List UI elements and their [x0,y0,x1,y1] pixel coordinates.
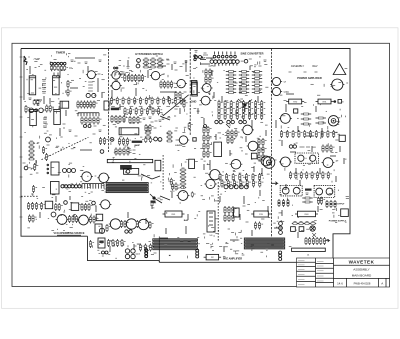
wire [57,73,59,77]
capacitor C8 [95,224,102,233]
resistor R64 [167,81,172,89]
resistor R77 [174,97,179,105]
resistor R244 [326,200,328,208]
connector J7 [292,248,326,251]
resistor R86 [183,100,188,108]
capacitor C15 [191,192,195,198]
transistor Q109 [100,150,104,154]
transistor Q44 [110,81,121,89]
resistor R227 [326,145,331,153]
resistor R18 [32,185,37,193]
resistor R174 [227,136,232,144]
resistor R180 [258,154,263,162]
transistor Q42 [136,64,140,68]
resistor R146 [261,100,266,108]
relay K2 [124,169,139,175]
resistor R14 [28,149,34,152]
resistor R103 [115,148,120,156]
transistor Q82 [145,252,148,255]
resistor R222 [315,130,320,138]
resistor R210 [316,99,334,104]
resistor R230 [295,171,300,179]
resistor R191 [234,180,239,188]
transistor Q13 [97,173,110,183]
resistor R247 [295,211,318,217]
wire [158,237,160,263]
transistor Q5 [35,109,38,112]
resistor R214 [316,117,326,119]
resistor R102 [166,139,172,142]
connector J1 [78,113,99,116]
transistor Q12 [80,172,93,182]
resistor R49 [150,58,156,61]
resistor R98 [145,131,151,134]
resistor R42 [112,239,117,247]
resistor R81 [135,107,140,115]
resistor R173 [235,130,240,138]
resistor R139 [218,100,223,108]
capacitor C1 [50,65,54,71]
transistor Q1 [86,71,97,79]
transistor Q87 [279,251,282,254]
svg-text:ASSEMBLY: ASSEMBLY [291,65,305,68]
resistor R91 [129,116,134,124]
resistor R26 [84,203,89,211]
resistor R153 [255,106,260,114]
resistor R201 [232,206,237,214]
resistor R187 [252,173,257,181]
resistor R89 [119,115,124,123]
svg-text:A: A [381,281,383,285]
resistor R269 [45,153,50,161]
transistor Q105 [194,55,196,57]
resistor R206 [254,222,259,230]
svg-text:LEVEL: LEVEL [175,145,183,147]
resistor R208 [204,254,222,260]
transistor Q69 [241,125,254,135]
resistor R124 [226,78,236,80]
arrow mark [271,182,277,185]
resistor R24 [58,203,63,211]
resistor R246 [334,200,336,208]
op-amp U12 [207,211,215,232]
transistor Q79 [177,191,190,201]
op-amp U1 [29,76,36,95]
resistor R82 [141,107,146,115]
resistor R67 [116,97,121,105]
resistor R109 [180,172,186,175]
transistor Q26 [99,228,104,233]
transistor Q35 [131,249,135,253]
resistor R169 [203,150,208,158]
resistor R7 [80,101,85,109]
resistor R199 [224,206,229,214]
resistor R28 [68,215,73,223]
resistor R157 [230,112,235,120]
transistor Q47 [154,137,158,141]
resistor R151 [242,106,247,114]
resistor R164 [207,126,212,134]
resistor R10 [90,101,95,109]
resistor R104 [119,148,124,156]
op-amp U3 [60,101,69,108]
transistor Q19 [78,185,81,188]
resistor R270 [99,137,104,145]
trimmer RT9 [291,227,296,232]
stray label specks [24,53,349,258]
transistor Q63 [228,60,232,64]
capacitor C3 [57,65,61,71]
resistor R268 [42,146,47,154]
resistor R242 [317,197,322,205]
transistor Q43 [110,71,121,79]
transistor Q57 [234,55,237,58]
resistor R111 [180,179,186,182]
resistor R21 [35,202,40,210]
connector J3 [107,159,152,162]
sheet border frame [12,43,390,286]
transistor Q40 [145,255,148,258]
transistor Q66 [244,59,248,63]
svg-text:REV: REV [312,65,317,68]
resistor R144 [248,100,253,108]
transistor Q91 [271,77,282,85]
resistor R177 [262,138,267,146]
resistor R142 [236,100,241,108]
capacitor C2 [54,65,58,71]
transistor Q50 [195,56,198,59]
resistor R178 [258,146,263,154]
resistor R44 [121,239,126,247]
resistor R257 [323,237,328,245]
resistor R179 [262,146,267,154]
trimmer RT4 [193,138,196,141]
resistor R209 [286,99,304,104]
resistor R2 [67,89,72,97]
transistor Q46 [176,79,187,87]
connector J5 [153,239,198,250]
resistor R125 [239,78,249,80]
resistor R114 [205,69,210,77]
resistor R148 [224,106,229,114]
wire [108,49,110,153]
capacitor C11 [149,137,153,143]
resistor R31 [89,216,94,224]
transistor Q27 [109,219,122,229]
wire [21,195,39,197]
transistor Q34 [125,249,129,253]
resistor R192 [240,180,245,188]
resistor R141 [230,100,235,108]
resistor R140 [224,100,229,108]
transistor Q8 [24,166,28,170]
resistor R168 [207,142,212,150]
svg-text:OUTPUT: OUTPUT [336,204,346,206]
resistor R40 [89,240,94,248]
resistor R228 [330,145,335,153]
resistor R207 [258,222,263,230]
resistor R250 [304,222,310,225]
wire [162,155,164,190]
resistor R233 [311,171,316,179]
resistor R154 [261,106,266,114]
resistor R193 [246,180,251,188]
resistor R92 [133,116,138,124]
transistor Q53 [217,55,220,58]
transistor Q41 [137,59,141,63]
transistor Q90 [330,79,344,90]
transistor Q88 [279,254,282,257]
resistor R241 [302,201,312,203]
node B [150,194,162,209]
resistor R53 [157,62,163,65]
op-amp U2 [53,76,60,95]
transistor Q97 [279,157,292,167]
resistor R126 [252,78,262,80]
transistor Q21 [92,201,96,205]
capacitor C4 [60,65,64,71]
diode CR3 [239,120,247,123]
transistor Q94 [328,116,338,126]
diode CR1 [215,120,223,123]
transistor Q96 [293,145,296,148]
transistor Q36 [125,254,129,258]
resistor R243 [320,197,325,205]
transistor Q55 [226,55,229,58]
relay K1 [120,165,132,170]
transistor Q38 [145,249,148,252]
resistor R97 [145,127,151,130]
resistor R66 [110,97,115,105]
resistor R203 [228,214,233,222]
resistor R95 [122,138,127,146]
transistor Q86 [196,255,199,258]
resistor R35 [120,220,125,228]
capacitor C17 [310,226,315,231]
resistor R17 [34,163,39,171]
resistor R65 [170,81,175,89]
resistor R226 [322,145,327,153]
resistor R112 [180,182,186,185]
ground [111,108,119,111]
transistor Q100 [279,222,283,226]
resistor R3 [25,105,30,113]
resistor R143 [242,100,247,108]
resistor R29 [72,215,77,223]
transistor Q4 [29,108,34,113]
resistor R58 [131,74,136,82]
trimmer RT2 [71,203,79,211]
wire [163,95,189,116]
transistor Q64 [232,60,236,64]
resistor R234 [316,171,321,179]
resistor R170 [207,150,212,158]
transistor Q18 [75,185,78,188]
resistor R46 [144,244,149,252]
svg-text:MAIN BOARD: MAIN BOARD [352,273,372,277]
resistor R232 [306,171,311,179]
resistor R19 [27,202,32,210]
resistor R56 [157,65,163,68]
resistor R197 [175,183,180,191]
resistor R117 [209,76,214,84]
resistor R147 [218,106,223,114]
capacitor C7 [37,99,41,105]
transistor Q49 [178,136,189,144]
resistor R96 [126,138,131,146]
resistor R105 [123,148,128,156]
resistor R245 [330,200,332,208]
transistor Q32 [102,251,105,254]
resistor R272 [188,122,193,130]
ground [305,189,312,191]
connector J2 [82,184,104,189]
resistor R264 [89,117,94,125]
transistor Q7 [46,137,51,142]
resistor R9 [87,101,92,109]
resistor R115 [209,69,214,77]
connector J6 [244,238,284,249]
resistor R78 [180,97,185,105]
capacitor C10 [145,137,149,143]
resistor R258 [175,91,180,99]
resistor R238 [282,199,284,207]
test point TP1 [110,138,114,142]
transistor Q83 [145,255,148,258]
resistor R110 [180,175,186,178]
transistor Q58 [210,60,214,64]
op-amp U5 [54,110,61,125]
resistor R145 [255,100,260,108]
resistor R134 [239,88,249,90]
wire [42,137,89,159]
resistor R70 [134,97,139,105]
transistor Q15 [64,185,67,188]
resistor R68 [122,97,127,105]
resistor R263 [85,117,90,125]
resistor R13 [28,145,34,148]
resistor R6 [77,101,82,109]
resistor R163 [203,126,208,134]
resistor R57 [127,74,132,82]
resistor R135 [252,88,262,90]
capacitor C16 [234,208,240,217]
resistor R223 [321,130,326,138]
resistor R118 [226,71,236,73]
resistor R186 [245,173,250,181]
op-amp U8 [191,81,197,95]
jumper block E2 [280,186,302,196]
resistor R181 [262,154,267,162]
transistor Q14 [61,185,64,188]
resistor R74 [157,97,162,105]
resistor R61 [141,74,146,82]
resistor R162 [261,112,266,120]
transistor Q23 [51,212,56,217]
resistor R113 [180,186,186,189]
resistor R54 [143,65,149,68]
resistor R171 [227,130,232,138]
resistor R22 [40,202,45,210]
resistor R15 [28,153,34,156]
warning triangle [333,64,346,75]
resistor R165 [203,134,208,142]
trimmer RT8 [341,209,349,217]
resistor R235 [322,171,327,179]
resistor R59 [134,74,139,82]
resistor R259 [179,91,184,99]
transistor Q45 [150,71,161,79]
resistor R101 [166,135,172,138]
resistor R33 [28,215,33,223]
svg-text:SINE CONVERTER: SINE CONVERTER [240,51,263,55]
resistor R256 [320,237,325,245]
resistor R4 [46,105,51,113]
transistor Q74 [224,185,228,189]
transistor Q51 [199,56,202,59]
transistor Q65 [236,60,240,64]
resistor R47 [149,244,154,252]
transistor Q110 [204,125,207,128]
resistor R88 [115,115,120,123]
transistor Q103 [114,67,116,69]
resistor R52 [150,62,156,65]
resistor R41 [107,239,112,247]
node C [334,100,337,103]
capacitor C5 [64,65,68,71]
resistor R36 [124,220,129,228]
svg-text:PRE AMPLIFIER: PRE AMPLIFIER [223,257,242,260]
resistor R155 [218,112,223,120]
resistor R32 [93,216,98,224]
op-amp U10 [192,82,198,96]
resistor R252 [305,237,310,245]
transistor Q76 [234,185,238,189]
resistor R251 [310,222,316,225]
transistor Q80 [204,179,216,188]
resistor R39 [106,224,111,232]
transistor Q85 [196,252,199,255]
resistor R69 [128,97,133,105]
transistor Q30 [125,230,128,233]
resistor R215 [316,122,326,124]
resistor R183 [226,173,231,181]
resistor R190 [227,180,232,188]
resistor R212 [301,118,311,120]
resistor R265 [93,117,98,125]
resistor R136 [226,92,236,94]
transistor Q28 [125,219,138,229]
label VCO-OPERATING SOURCE [54,232,85,235]
resistor R229 [289,171,294,179]
inductor L1 [132,141,143,143]
resistor R200 [228,206,233,214]
resistor R23 [55,203,60,211]
resistor R196 [171,183,176,191]
transistor Q29 [137,219,150,229]
resistor R132 [252,85,262,87]
transistor Q16 [68,185,71,188]
resistor R249 [298,222,304,225]
resistor R120 [252,71,262,73]
resistor R253 [309,237,314,245]
resistor R167 [203,142,208,150]
op-amp U7 [51,182,60,195]
transistor Q22 [99,200,111,209]
resistor R129 [252,81,262,83]
node A [238,99,252,112]
op-amp U6 [47,162,59,175]
